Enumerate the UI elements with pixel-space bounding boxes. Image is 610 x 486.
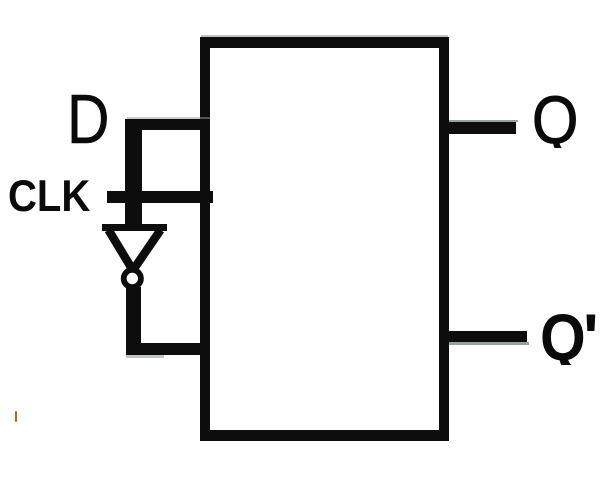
inverter U2 xyxy=(90,215,180,300)
artifact: gray fringe above D wire xyxy=(127,117,210,120)
wire: inverter output horizontal xyxy=(126,343,210,355)
artifact: orange tick xyxy=(15,411,17,422)
wire: CLK horizontal xyxy=(107,191,213,203)
artifact: gray fringe above Q wire xyxy=(449,120,518,123)
wire: Q output xyxy=(449,122,516,134)
artifact: gray fringe above box top edge xyxy=(201,35,448,38)
artifact: gray blur below bottom wire corner xyxy=(126,355,164,358)
label Q' xyxy=(530,304,610,365)
artifact: gray fringe below Q' wire xyxy=(449,342,529,345)
wire: inverter output vertical xyxy=(126,287,141,355)
label Q xyxy=(522,87,592,148)
wire: D branch vertical xyxy=(125,119,142,231)
label CLK xyxy=(8,175,90,220)
label D xyxy=(67,84,109,154)
wire: Q' output xyxy=(449,331,527,342)
wire: D input horizontal xyxy=(125,119,210,130)
flip-flop body U1 xyxy=(200,37,449,441)
